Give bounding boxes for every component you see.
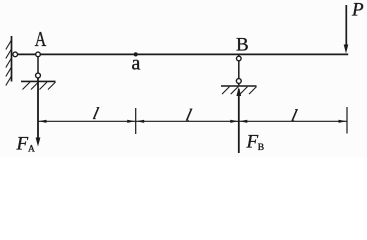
dimension line (38, 120, 347, 122)
svg-text:l: l (290, 106, 300, 125)
reaction F_B line (238, 89, 240, 153)
pin at wall (13, 52, 18, 57)
ground B (221, 85, 257, 87)
beam (13, 53, 349, 55)
hinge B lower (236, 79, 241, 84)
svg-text:F: F (246, 132, 259, 153)
dim arrow seg2 right (230, 120, 238, 123)
hinge A upper (36, 52, 41, 57)
svg-text:B: B (236, 34, 249, 55)
dim arrow seg1 right (127, 120, 135, 123)
load P line (345, 5, 347, 46)
svg-text:l: l (91, 104, 101, 123)
wall hatching (6, 40, 12, 86)
ground B hatching (222, 87, 257, 95)
dim arrow seg3 right (339, 120, 347, 123)
dimension tick mid (135, 108, 137, 134)
hinge A lower (36, 73, 41, 78)
point a dot (134, 52, 138, 56)
P arrowhead (344, 45, 349, 54)
wall (11, 36, 13, 82)
svg-text:A: A (35, 27, 47, 51)
label l seg1 (91, 104, 101, 123)
reaction F_A line (37, 78, 39, 140)
svg-text:a: a (132, 52, 141, 74)
dim arrow seg1 left (39, 120, 47, 123)
svg-text:B: B (258, 143, 264, 153)
F_A arrowhead (36, 138, 41, 147)
ground A (21, 80, 56, 82)
label l seg3 (290, 106, 300, 125)
svg-text:P: P (351, 0, 364, 21)
dim arrow seg2 left (136, 120, 144, 123)
F_B arrowhead (236, 87, 241, 96)
svg-text:F: F (16, 134, 29, 155)
dimension tick right (346, 107, 348, 134)
ground A hatching (23, 82, 56, 90)
label l seg2 (184, 106, 194, 125)
dim arrow seg3 left (239, 120, 247, 123)
link B vertical (238, 55, 240, 86)
svg-text:A: A (28, 145, 35, 155)
hinge B upper (237, 56, 242, 61)
link A vertical (37, 54, 39, 77)
